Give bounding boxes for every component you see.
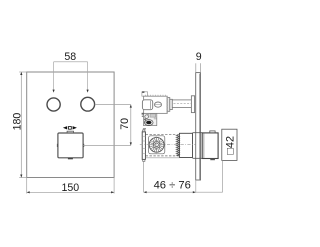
block [179,133,192,157]
svg-text:70: 70 [119,118,131,130]
shaft end flange [191,96,194,113]
svg-text:58: 58 [64,51,76,63]
knob right [81,97,95,111]
plate outline [27,72,114,178]
knob left [47,98,60,111]
wall plate bar [196,73,201,180]
hub square [149,136,165,154]
centerline [140,144,196,146]
svg-text:9: 9 [196,51,202,63]
hatch ticks on body top [146,95,166,97]
sub-assembly below cartridge [144,113,157,125]
upper cartridge body [144,96,168,113]
button side tabs [57,144,59,147]
crossing lines block->handle [193,132,203,134]
inner ellipse [155,102,162,107]
svg-text:□42: □42 [225,136,237,155]
upper cartridge: top tab [142,92,148,96]
bottom casing line [146,157,180,159]
coupling flange [167,98,170,112]
arrows glyph above button [63,126,67,129]
left cap [142,100,152,110]
svg-text:46 ÷ 76: 46 ÷ 76 [154,179,191,191]
hidden edge dashes [146,134,180,136]
teeth strip [176,135,179,156]
handle block [202,133,218,159]
shaft [172,100,191,108]
button square [58,133,83,158]
label box [222,129,237,160]
lower mechanism: left flange [142,132,145,160]
button bottom tab [68,158,73,160]
concentric circles (knurled ring) [149,137,164,152]
button top tab [67,131,73,133]
